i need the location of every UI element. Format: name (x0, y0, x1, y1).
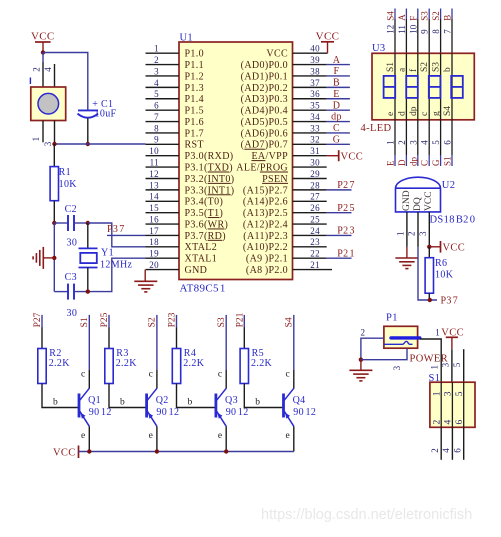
svg-text:c: c (218, 370, 223, 380)
svg-text:9012: 9012 (89, 407, 112, 418)
svg-text:(AD4)P0.4: (AD4)P0.4 (241, 106, 288, 117)
U1 pin name (A10)P2.2 (243, 242, 288, 253)
ground (crystal caps, sideways) (33, 247, 43, 269)
U1 pin 30 stub wire (293, 166, 327, 168)
S1 pin name 1 (432, 391, 442, 396)
svg-text:P3.1(TXD): P3.1(TXD) (185, 163, 233, 174)
U3 pin number 9 (420, 29, 430, 34)
svg-text:(AD5)P0.5: (AD5)P0.5 (241, 117, 288, 128)
svg-text:(A12)P2.4: (A12)P2.4 (243, 219, 288, 230)
U3 pin name d (397, 111, 407, 116)
U3 pin name b (443, 67, 453, 72)
svg-text:7: 7 (154, 112, 159, 122)
U1 pin name P1.3 (185, 83, 204, 94)
svg-text:DQ: DQ (413, 197, 423, 211)
svg-text:c: c (286, 370, 291, 380)
svg-text:https://blog.csdn.net/eletroni: https://blog.csdn.net/eletronicfish (261, 507, 472, 523)
connector S1 body (430, 382, 475, 427)
svg-text:3: 3 (392, 365, 402, 370)
wire P1 pin2 to ground (361, 338, 384, 360)
node label dp (U3 bottom) (408, 157, 418, 167)
wire net S4 to collector (293, 315, 295, 389)
resistor R4 (172, 349, 180, 384)
wire U3 bottom pin 5 (G) (440, 120, 442, 166)
svg-text:23: 23 (310, 237, 320, 247)
transistor Q3 9012 PNP (216, 388, 226, 426)
svg-text:P37: P37 (441, 296, 459, 307)
U1 pin 2 stub wire (146, 64, 180, 66)
label 9012 (Q1) (89, 407, 112, 418)
node label C (333, 123, 340, 134)
U1 pin number 26 (310, 203, 320, 213)
svg-text:Y1: Y1 (101, 247, 114, 258)
svg-text:33: 33 (310, 123, 320, 133)
svg-text:AT89C51: AT89C51 (180, 283, 226, 295)
7-seg digit 1 (384, 76, 396, 98)
U3 pin number 4 (420, 140, 430, 145)
label AT89C51 value (180, 283, 226, 295)
svg-text:30: 30 (310, 158, 320, 168)
svg-text:11: 11 (150, 158, 159, 168)
node label e (Q1 emitter) (81, 431, 86, 441)
svg-text:(AD6)P0.6: (AD6)P0.6 (241, 128, 288, 139)
U1 pin number 9 (154, 135, 159, 145)
pushbutton S (reset key) (31, 87, 66, 121)
svg-text:E: E (333, 89, 339, 100)
U1 pin 15 stub wire (146, 212, 180, 214)
svg-text:P1.3: P1.3 (185, 83, 204, 94)
wire U2 pin2 DQ down (418, 212, 437, 300)
svg-text:6: 6 (443, 140, 453, 145)
U1 pin number 25 (310, 214, 320, 224)
svg-text:3: 3 (441, 362, 451, 367)
U1 pin number 28 (310, 180, 320, 190)
svg-text:9012: 9012 (226, 407, 249, 418)
label + C1 (92, 99, 113, 110)
U1 pin 25 stub wire (293, 223, 327, 225)
svg-text:RST: RST (185, 140, 204, 151)
U1 pin number 17 (149, 226, 159, 236)
U1 pin number 38 (310, 66, 320, 76)
U1 pin name P3.2(INT0) (185, 174, 235, 185)
U1 pin 1 stub wire (146, 52, 180, 54)
U1 pin name (AD4)P0.4 (241, 106, 288, 117)
U1 pin name (A9)P2.1 (246, 254, 288, 265)
svg-text:D: D (333, 100, 341, 111)
pin number 3 (button) (43, 141, 53, 146)
U1 pin name EA/VPP (251, 151, 288, 162)
svg-text:3: 3 (408, 140, 418, 145)
node label C (U3 bottom) (420, 160, 430, 166)
wire R2 to base (42, 384, 79, 408)
label 10K (59, 179, 78, 190)
ground (P1) (349, 370, 372, 381)
label U3 designator (372, 43, 386, 54)
svg-text:S4: S4 (285, 317, 295, 327)
node label c (Q2 collector) (149, 370, 154, 380)
svg-text:VCC: VCC (316, 30, 340, 42)
U3 pin name S4 (443, 106, 453, 116)
svg-text:P1: P1 (386, 313, 398, 324)
crystal Y1 (79, 223, 98, 292)
wire VCC flag to S1 pin3 (451, 337, 453, 382)
U2 pin number 2 (407, 232, 417, 237)
wire emitter rail (79, 451, 294, 453)
U1 pin 13 stub wire (146, 189, 180, 191)
resistor R6 (425, 247, 433, 300)
svg-text:F: F (334, 66, 340, 77)
S1 top pin number 1 (430, 365, 440, 370)
U1 pin 34 stub wire (293, 121, 327, 123)
svg-text:26: 26 (310, 203, 320, 213)
U1 pin name P1.1 (185, 60, 204, 71)
svg-text:P25: P25 (337, 203, 355, 214)
U1 pin name GND (185, 265, 208, 276)
junction crystal bottom node (86, 289, 90, 293)
svg-text:3: 3 (444, 391, 454, 396)
svg-text:S2: S2 (431, 11, 441, 21)
U1 pin number 19 (149, 249, 159, 259)
node label B (U3 top) (443, 15, 453, 21)
node label G (U3 bottom) (431, 159, 441, 166)
svg-text:dp: dp (331, 112, 342, 123)
node label b (Q3 base) (188, 398, 193, 408)
svg-text:36: 36 (310, 89, 320, 99)
node label S4 (U3 top) (386, 11, 396, 21)
U1 pin name P1.0 (185, 49, 204, 60)
wire S1 through-body pins (441, 382, 464, 427)
U1 pin name XTAL2 (185, 242, 218, 253)
svg-text:5: 5 (154, 89, 159, 99)
U1 pin 35 stub wire (293, 109, 327, 111)
U1 pin 7 stub wire (146, 121, 180, 123)
U1 pin 40 stub wire (293, 52, 328, 54)
svg-text:5: 5 (455, 391, 465, 396)
svg-text:P23: P23 (337, 226, 355, 237)
svg-text:(AD1)P0.1: (AD1)P0.1 (241, 71, 288, 82)
node label e (Q3 emitter) (218, 431, 223, 441)
node label P25 (337, 203, 355, 214)
U1 pin name P1.6 (185, 117, 204, 128)
svg-text:2: 2 (407, 232, 417, 237)
svg-text:4: 4 (441, 448, 451, 453)
svg-text:(A8 )P2.0: (A8 )P2.0 (246, 265, 288, 276)
U1 pin 3 stub wire (146, 75, 180, 77)
wire U2 pin1 to ground (406, 212, 408, 258)
svg-text:Q1: Q1 (88, 395, 101, 406)
S1 top pin number 5 (452, 362, 462, 367)
node label c (Q3 collector) (218, 370, 223, 380)
U1 pin name P3.5(T1) (185, 208, 224, 219)
U1 pin name P1.4 (185, 94, 204, 105)
label 9012 (Q3) (226, 407, 249, 418)
svg-text:P27: P27 (337, 180, 355, 191)
wire U3 top pin 7 (B) (451, 9, 453, 54)
svg-text:2: 2 (361, 328, 366, 338)
wire ground stem (360, 360, 362, 371)
wire U3 bottom pin 4 (C) (428, 120, 430, 166)
svg-text:1: 1 (386, 140, 396, 145)
svg-text:P1.6: P1.6 (185, 117, 204, 128)
svg-text:18: 18 (149, 237, 159, 247)
svg-text:9012: 9012 (156, 407, 179, 418)
svg-text:20: 20 (149, 260, 159, 270)
U1 pin number 40 (310, 44, 320, 54)
S1 pin name 2 (432, 420, 442, 425)
junction P1 ground node (359, 358, 363, 362)
svg-text:10uF: 10uF (95, 109, 117, 120)
svg-text:P1.4: P1.4 (185, 94, 204, 105)
svg-text:dp: dp (408, 157, 418, 167)
U1 pin 39 stub wire (293, 64, 327, 66)
node label S3 (U3 top) (420, 11, 430, 21)
svg-text:XTAL2: XTAL2 (185, 242, 218, 253)
svg-text:15: 15 (149, 203, 159, 213)
S1 top pin number 3 (441, 362, 451, 367)
U1 pin number 12 (149, 169, 159, 179)
wire net D (pin 35) (327, 109, 350, 111)
U1 pin 24 stub wire (293, 234, 327, 236)
label S1 designator (429, 373, 441, 384)
svg-text:P3.4(T0): P3.4(T0) (185, 197, 224, 208)
wire R3 to base (109, 384, 146, 408)
power flag VCC (U1 pin 40) (316, 30, 340, 42)
wire net P21 down to R5 (243, 315, 245, 349)
U3 pin name S1 (386, 62, 396, 72)
wire pin31 to VCC (327, 155, 339, 157)
wire S1 pin5 stub (463, 349, 465, 382)
svg-text:P21: P21 (337, 248, 355, 259)
U3 pin number 11 (397, 25, 407, 34)
svg-text:3: 3 (418, 231, 428, 236)
U1 pin name (A13)P2.5 (243, 208, 288, 219)
node label E (U3 bottom) (386, 160, 396, 166)
capacitor C3 (68, 284, 74, 300)
node label P21 (337, 248, 355, 259)
wire button pin1 stub (42, 121, 44, 143)
wire net P23 (pin 24) (327, 234, 352, 236)
svg-text:3: 3 (43, 141, 53, 146)
svg-text:7: 7 (443, 29, 453, 34)
wire to left ground (44, 257, 55, 259)
power flag VCC (top-left) (31, 31, 55, 43)
svg-text:35: 35 (310, 101, 320, 111)
watermark (261, 507, 472, 523)
U1 pin number 29 (310, 169, 320, 179)
U3 pin name S3 (432, 62, 442, 72)
svg-text:P1.7: P1.7 (185, 128, 204, 139)
display U3 body (372, 53, 474, 120)
S1 bottom pin number 4 (441, 448, 451, 453)
svg-text:19: 19 (149, 249, 159, 259)
U1 pin number 5 (154, 89, 159, 99)
label Q3 (225, 395, 238, 406)
U1 pin 19 stub wire (146, 257, 180, 259)
svg-text:S4: S4 (443, 106, 453, 116)
svg-text:VCC: VCC (443, 243, 466, 254)
pin number 1 (button) (31, 137, 41, 142)
svg-text:R1: R1 (59, 167, 71, 178)
U1 pin name (AD2)P0.2 (241, 83, 288, 94)
svg-text:2: 2 (430, 448, 440, 453)
label Q4 (293, 395, 306, 406)
svg-text:1: 1 (432, 391, 442, 396)
svg-text:GND: GND (185, 265, 208, 276)
svg-text:9: 9 (154, 135, 159, 145)
wire net P27 (pin 28) (327, 189, 352, 191)
svg-text:2.2K: 2.2K (183, 358, 205, 369)
capacitor C2 (68, 215, 74, 231)
svg-text:17: 17 (149, 226, 159, 236)
node label b (Q1 base) (53, 398, 58, 408)
label C2 (65, 204, 77, 215)
label 2.2K (R3) (116, 358, 138, 369)
svg-text:1: 1 (395, 232, 405, 237)
wire button pin3 (54, 121, 56, 145)
U3 pin name e (386, 112, 396, 116)
node label B (333, 78, 340, 89)
svg-text:9: 9 (420, 29, 430, 34)
svg-text:30: 30 (67, 237, 78, 248)
transistor Q2 9012 PNP (147, 388, 157, 426)
U1 pin number 20 (149, 260, 159, 270)
U1 pin name VCC (266, 49, 288, 60)
svg-text:B: B (443, 15, 453, 21)
wire U3 through-body 5 (440, 53, 442, 120)
svg-text:21: 21 (310, 260, 320, 270)
svg-text:(AD3)P0.3: (AD3)P0.3 (241, 94, 288, 105)
U3 pin number 2 (397, 140, 407, 145)
wire GND pin20 drop (144, 270, 146, 282)
wire R5 to base (244, 384, 283, 408)
label R5 (252, 348, 264, 359)
wire RST net (55, 143, 146, 145)
U1 pin number 39 (310, 55, 320, 65)
svg-text:4-LED: 4-LED (361, 123, 392, 134)
node label e (Q2 emitter) (149, 431, 154, 441)
label 30 (C2 value) (67, 237, 78, 248)
U1 pin name P3.6(WR) (185, 219, 229, 230)
node label dp (331, 112, 342, 123)
label U1 designator (180, 33, 194, 44)
svg-text:4: 4 (444, 420, 454, 425)
junction button pin3/RST (52, 142, 56, 146)
svg-text:12: 12 (149, 169, 159, 179)
node label F (334, 66, 340, 77)
U2 pin number 3 (418, 231, 428, 236)
U1 pin number 30 (310, 158, 320, 168)
label POWER (410, 353, 449, 364)
wire VCC node to flag (429, 246, 440, 248)
junction R1/C2 (52, 221, 56, 225)
label 9012 (Q2) (156, 407, 179, 418)
svg-text:1: 1 (31, 137, 41, 142)
svg-text:5: 5 (431, 140, 441, 145)
node label F (U3 top) (408, 16, 418, 21)
U1 pin 29 stub wire (293, 177, 327, 179)
node label S1 (digit select) (80, 317, 90, 327)
U1 pin number 35 (310, 101, 320, 111)
U1 pin 21 stub wire (293, 269, 333, 271)
svg-text:29: 29 (310, 169, 320, 179)
U1 pin name RST (185, 140, 204, 151)
svg-text:(AD7)P0.7: (AD7)P0.7 (241, 140, 288, 151)
svg-text:10: 10 (408, 24, 418, 34)
U2 pin name VCC (424, 191, 434, 211)
wire U3 top pin 8 (S2) (440, 9, 442, 54)
U1 pin name (A12)P2.4 (243, 219, 288, 230)
svg-text:28: 28 (310, 180, 320, 190)
wire net P37 (pin 17) (107, 234, 146, 236)
svg-text:e: e (386, 112, 396, 116)
wire U3 through-body 4 (428, 53, 430, 120)
U1 pin name P1.5 (185, 106, 204, 117)
S1 pin name 3 (444, 391, 454, 396)
wire U3 bottom pin 2 (D) (405, 120, 407, 166)
svg-text:c: c (81, 370, 86, 380)
wire net P23 down to R4 (176, 315, 178, 349)
U1 pin number 33 (310, 123, 320, 133)
pin number 2 (button) (32, 67, 42, 72)
U3 pin name f (408, 68, 419, 72)
svg-text:37: 37 (310, 78, 320, 88)
U1 pin 11 stub wire (146, 166, 180, 168)
svg-text:ALE/PROG: ALE/PROG (236, 163, 288, 174)
label P1 designator (386, 313, 398, 324)
svg-text:Q2: Q2 (156, 395, 169, 406)
U1 pin name ALE/PROG (236, 163, 288, 174)
wire VCC stem (42, 42, 44, 53)
node label c (Q4 collector) (286, 370, 291, 380)
svg-text:g: g (432, 111, 442, 116)
label 10K (R6) (435, 270, 454, 281)
svg-text:VCC: VCC (53, 447, 76, 458)
svg-text:4: 4 (154, 78, 159, 88)
U2 pin number 1 (395, 232, 405, 237)
wire net A (pin 39) (327, 64, 350, 66)
P1 pin number 3 (392, 365, 402, 370)
svg-text:P1.2: P1.2 (185, 71, 204, 82)
svg-text:Q4: Q4 (293, 395, 306, 406)
wire U3 top pin 11 (A) (405, 9, 407, 54)
U1 pin 37 stub wire (293, 86, 327, 88)
wire top node to XTAL2 (88, 223, 146, 247)
U1 pin number 21 (310, 260, 320, 270)
node label S3 (digit select) (217, 317, 227, 327)
svg-text:e: e (286, 431, 291, 441)
wire U3 through-body 1 (394, 53, 396, 120)
svg-text:4: 4 (420, 140, 430, 145)
U1 pin number 24 (310, 226, 320, 236)
label U2 designator (442, 180, 456, 191)
U1 pin number 34 (310, 112, 320, 122)
U3 pin number 3 (408, 140, 418, 145)
svg-text:S1: S1 (80, 317, 90, 327)
U1 pin 26 stub wire (293, 212, 327, 214)
svg-text:8: 8 (154, 123, 159, 133)
label 2.2K (R2) (49, 358, 71, 369)
wire net S1 to collector (88, 315, 90, 389)
svg-text:14: 14 (149, 192, 159, 202)
svg-text:P3.7(RD): P3.7(RD) (185, 231, 226, 242)
svg-text:2.2K: 2.2K (116, 358, 138, 369)
svg-text:P1.1: P1.1 (185, 60, 204, 71)
svg-text:C3: C3 (65, 272, 77, 283)
transistor Q1 9012 PNP (79, 388, 89, 426)
U1 pin number 23 (310, 237, 320, 247)
svg-text:P1.5: P1.5 (185, 106, 204, 117)
U1 pin number 3 (154, 66, 159, 76)
